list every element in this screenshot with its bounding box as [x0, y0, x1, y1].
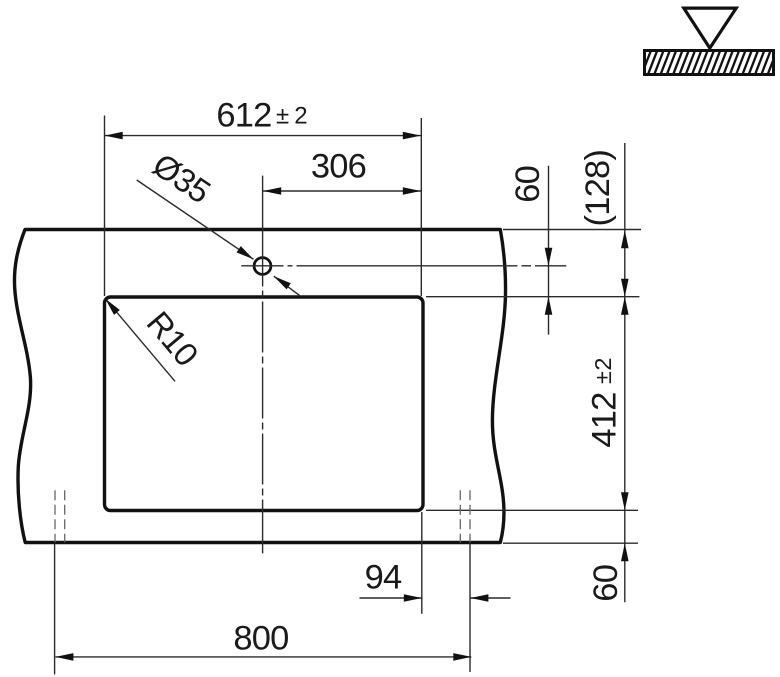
svg-text:800: 800: [233, 620, 288, 658]
dimension 60 bottom: [587, 543, 629, 601]
svg-text:60: 60: [587, 565, 625, 602]
svg-text:306: 306: [311, 148, 366, 186]
cutout rectangle: [105, 297, 424, 511]
worktop outline with break lines: [14, 230, 505, 543]
leader and label R10: [105, 299, 205, 382]
dimension 306: [263, 148, 422, 195]
horizontal centerline of hole: [241, 265, 566, 267]
leader and label Ø35: [137, 146, 300, 296]
svg-text:±2: ±2: [590, 357, 616, 384]
dimension 612 ±2: [105, 97, 422, 297]
svg-text:± 2: ± 2: [276, 103, 307, 130]
vertical centerline: [262, 176, 264, 554]
extension lines right side: [426, 230, 641, 544]
dimension (128): [579, 143, 629, 602]
dimension 60 top: [509, 166, 552, 335]
svg-text:60: 60: [509, 166, 547, 203]
tap hole circle: [254, 258, 271, 275]
svg-text:612: 612: [216, 97, 271, 135]
cabinet side dashed lines left: [55, 490, 65, 542]
svg-text:94: 94: [365, 559, 402, 597]
dimension 94: [360, 512, 511, 614]
datum triangle: [684, 8, 736, 48]
cabinet side dashed lines right: [460, 490, 470, 542]
svg-text:(128): (128): [579, 150, 617, 227]
svg-text:412: 412: [586, 392, 624, 447]
dimension 412 ±2: [586, 297, 629, 511]
datum hatched bar: [634, 47, 778, 78]
dimension 800: [55, 543, 472, 674]
